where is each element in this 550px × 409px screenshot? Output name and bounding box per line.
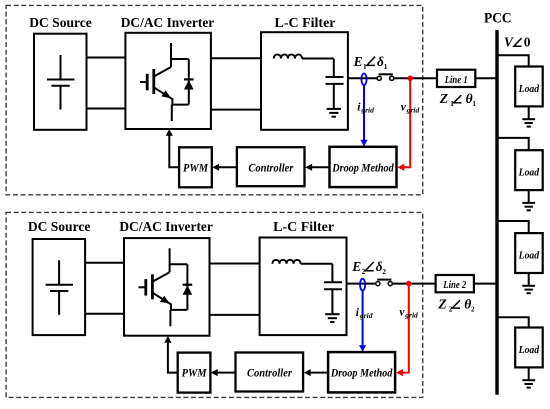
- wire: PCC bus to load 1: [497, 55, 529, 66]
- Droop Method block (unit 1): [330, 147, 397, 187]
- wire: droop method to controller (unit 1): [305, 164, 329, 171]
- svg-text:L-C Filter: L-C Filter: [275, 16, 336, 31]
- wire: load 2 to ground: [528, 190, 530, 203]
- ground (filter capacitor, unit 1): [327, 109, 341, 117]
- label Z2∠θ2: [437, 296, 475, 313]
- wire: controller to PWM (unit 2): [211, 369, 235, 376]
- subsystem 1 dashed boundary: [6, 5, 423, 194]
- filter inductor L (unit 1): [274, 55, 302, 59]
- svg-text:2: 2: [362, 268, 366, 276]
- svg-text:Droop Method: Droop Method: [330, 366, 393, 380]
- svg-text:grid: grid: [359, 311, 373, 320]
- wire: inverter to filter, bottom (unit 1): [211, 109, 261, 111]
- svg-text:DC/AC Inverter: DC/AC Inverter: [121, 16, 215, 31]
- filter inductor L (unit 2): [272, 260, 300, 264]
- svg-text:2: 2: [382, 268, 386, 276]
- freewheeling diode (unit 1): [171, 59, 194, 105]
- node v_grid (unit 2): [406, 281, 412, 287]
- svg-text:Controller: Controller: [248, 160, 293, 174]
- wire: load 3 to ground: [528, 273, 530, 286]
- svg-text:1: 1: [472, 100, 476, 108]
- PWM block (unit 1): [179, 147, 212, 187]
- load 1 block: [515, 67, 543, 107]
- svg-text:DC/AC Inverter: DC/AC Inverter: [119, 220, 213, 235]
- svg-text:PWM: PWM: [183, 160, 208, 174]
- svg-text:1: 1: [450, 100, 454, 108]
- wire: controller to PWM (unit 1): [212, 164, 236, 171]
- ground (load 3): [522, 286, 535, 293]
- wire: inverter to filter, bottom (unit 2): [210, 314, 260, 316]
- svg-text:2: 2: [471, 306, 475, 314]
- svg-text:E: E: [351, 259, 361, 274]
- L-C filter block (unit 1): [261, 32, 348, 130]
- wire: PCC bus to load 4: [497, 317, 529, 327]
- freewheeling diode (unit 2): [170, 264, 193, 310]
- label i_grid (unit 1): [357, 102, 374, 115]
- breaker switch (unit 2): [376, 280, 393, 286]
- filter capacitor C (unit 1): [326, 59, 344, 109]
- battery symbol (unit 2): [46, 260, 73, 315]
- current sensor loop i_grid (unit 2): [360, 279, 365, 291]
- label E1∠δ1: [353, 54, 388, 71]
- wire: PWM to inverter gate (unit 1): [166, 129, 179, 167]
- DC source block (unit 2): [33, 239, 86, 335]
- Controller block (unit 1): [237, 147, 305, 186]
- DC/AC inverter block (unit 2): [124, 238, 210, 336]
- Line 2 impedance block: [436, 275, 474, 292]
- breaker switch (unit 1): [377, 74, 394, 80]
- Line 1 impedance block: [437, 70, 475, 87]
- svg-text:V: V: [504, 34, 514, 49]
- label Z1∠θ1: [439, 91, 477, 108]
- filter capacitor C (unit 2): [324, 264, 342, 314]
- svg-text:Load: Load: [518, 250, 540, 261]
- current sensor loop i_grid (unit 1): [361, 74, 366, 86]
- svg-text:DC Source: DC Source: [28, 220, 91, 235]
- ground (load 1): [522, 119, 535, 126]
- load 3 block: [515, 233, 543, 273]
- wire: inverter to filter, top (unit 1): [211, 57, 261, 59]
- ground (load 2): [522, 203, 535, 210]
- PCC bus: [495, 30, 498, 395]
- subsystem 2 dashed boundary: [6, 212, 423, 397]
- DC source block (unit 1): [34, 34, 87, 130]
- wire: load 1 to ground: [528, 106, 530, 119]
- DC/AC inverter block (unit 1): [125, 33, 210, 129]
- IGBT switch (unit 2): [139, 248, 172, 326]
- L-C filter block (unit 2): [260, 238, 347, 336]
- ground (load 4): [522, 380, 535, 387]
- wire: inverter to filter, top (unit 2): [210, 263, 260, 265]
- label V∠0: [504, 34, 531, 49]
- Droop Method block (unit 2): [328, 352, 395, 392]
- svg-text:E: E: [353, 54, 363, 69]
- label i_grid (unit 2): [356, 307, 373, 320]
- node v_grid (unit 1): [407, 76, 413, 82]
- wire: current measurement i_grid to droop (unit 1, blue): [360, 85, 367, 147]
- wire: load 4 to ground: [528, 367, 530, 380]
- wire: PWM to inverter gate (unit 2): [164, 336, 177, 373]
- svg-text:Controller: Controller: [247, 366, 292, 380]
- svg-text:Load: Load: [518, 168, 540, 179]
- battery symbol (unit 1): [47, 55, 74, 110]
- svg-text:Load: Load: [518, 345, 540, 356]
- svg-text:Line 1: Line 1: [444, 74, 468, 86]
- wire: DC source to inverter, top (unit 1): [87, 57, 126, 59]
- svg-text:1: 1: [384, 63, 388, 71]
- wire: PCC bus to load 3: [497, 221, 529, 233]
- IGBT switch (unit 1): [140, 43, 173, 121]
- wire: current measurement i_grid to droop (unit 2, blue): [359, 290, 366, 352]
- wire: filter output to Line 2 (node E2): [347, 283, 436, 285]
- load 4 block: [515, 328, 543, 368]
- wire: PCC bus to load 2: [497, 138, 529, 150]
- wire: DC source to inverter, top (unit 2): [85, 262, 124, 264]
- svg-text:L-C Filter: L-C Filter: [273, 220, 334, 235]
- svg-text:grid: grid: [404, 311, 418, 320]
- wire: DC source to inverter, bottom (unit 2): [85, 313, 124, 315]
- PWM block (unit 2): [178, 353, 211, 393]
- wire: DC source to inverter, bottom (unit 1): [87, 108, 126, 110]
- svg-text:1: 1: [363, 63, 367, 71]
- svg-text:PWM: PWM: [182, 366, 207, 380]
- wire: voltage measurement v_grid to droop (unit 2, red): [396, 284, 409, 377]
- load 2 block: [515, 150, 543, 190]
- wire: Line 2 to PCC bus: [474, 283, 497, 285]
- label v_grid (unit 2): [399, 307, 418, 320]
- ground (filter capacitor, unit 2): [325, 314, 339, 322]
- svg-text:Z: Z: [437, 296, 446, 311]
- svg-text:DC Source: DC Source: [29, 16, 92, 31]
- svg-text:2: 2: [449, 306, 453, 314]
- svg-text:0: 0: [524, 34, 531, 49]
- svg-text:grid: grid: [406, 105, 420, 114]
- wire: Line 1 to PCC bus: [475, 77, 498, 79]
- svg-text:Load: Load: [518, 84, 540, 95]
- svg-text:Droop Method: Droop Method: [331, 160, 394, 174]
- wire: voltage measurement v_grid to droop (unit 1, red): [398, 78, 411, 171]
- svg-text:Line 2: Line 2: [443, 279, 467, 291]
- svg-text:PCC: PCC: [484, 11, 512, 27]
- svg-text:grid: grid: [360, 106, 374, 115]
- Controller block (unit 2): [236, 353, 304, 392]
- label E2∠δ2: [351, 259, 386, 276]
- svg-text:Z: Z: [439, 91, 448, 106]
- label v_grid (unit 1): [401, 101, 420, 114]
- wire: droop method to controller (unit 2): [304, 369, 328, 376]
- wire: filter output to Line 1 (node E1): [348, 77, 437, 79]
